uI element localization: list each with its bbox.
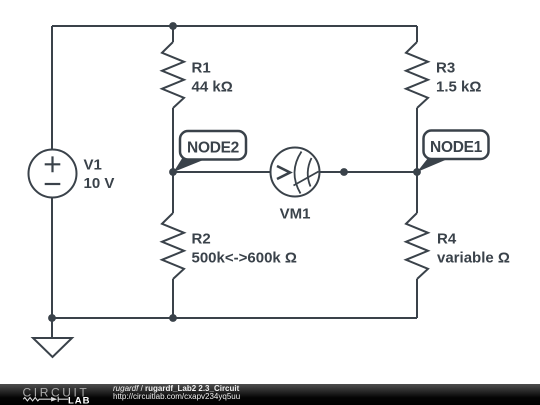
svg-text:LAB: LAB [68,395,91,405]
resistor R4 [406,213,428,279]
ground [51,318,53,338]
svg-text:R4: R4 [437,231,457,248]
svg-text:V1: V1 [84,157,102,174]
resistor R3 [406,42,428,108]
junction dot NODE2 [169,168,177,176]
wire R3 bottom lead [416,108,418,172]
wire bottom horizontal [52,317,417,319]
wire left vertical upper [51,26,53,150]
footer title text [113,385,239,393]
svg-text:500k<->600k Ω: 500k<->600k Ω [192,250,297,267]
footer bar [0,384,540,405]
wire mid left (NODE2 to VM1) [173,171,271,173]
svg-text:NODE1: NODE1 [430,139,483,156]
CircuitLab logo [0,384,100,405]
node NODE2 label [174,131,247,172]
wire R1 top lead [172,26,174,42]
svg-text:1.5 kΩ: 1.5 kΩ [436,79,481,96]
node NODE1 label [417,131,489,173]
resistor R1 [162,42,184,108]
wire left vertical lower [51,198,53,319]
footer url text [113,393,240,401]
wire R2 top lead [172,172,174,213]
wire top horizontal [52,25,417,27]
wire right vertical upper [416,26,418,42]
svg-text:R2: R2 [192,231,211,248]
junction dot VM1 right [340,168,348,176]
svg-text:R3: R3 [436,60,455,77]
svg-text:NODE2: NODE2 [187,140,239,157]
wire R4 top lead [416,172,418,213]
wire mid right (VM1 to NODE1) [320,171,418,173]
junction dot R2 bottom [169,314,177,322]
voltmeter VM1 [271,148,320,197]
junction dot NODE1 [413,168,421,176]
svg-text:variable Ω: variable Ω [437,250,510,267]
resistor R2 [162,213,184,279]
wire R1 bottom lead [172,108,174,172]
wire R2 bottom lead [172,279,174,318]
svg-text:VM1: VM1 [280,206,311,223]
wire R4 bottom lead [416,279,418,318]
junction dot bottom left [48,314,56,322]
svg-text:10 V: 10 V [84,175,115,192]
junction dot R1 top [169,22,177,30]
svg-text:R1: R1 [192,60,211,77]
voltage source V1 [29,150,77,198]
svg-text:44 kΩ: 44 kΩ [192,79,233,96]
